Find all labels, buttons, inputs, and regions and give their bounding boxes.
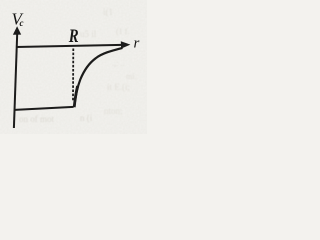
- dashed line at R: [72, 49, 74, 101]
- bleed-through text top right: [80, 7, 129, 68]
- svg-text:on of mot: on of mot: [19, 114, 54, 124]
- svg-text:c: c: [20, 18, 24, 28]
- svg-text:(1 f.: (1 f.: [116, 27, 129, 36]
- y-axis arrowhead: [13, 26, 21, 35]
- bleed-through text bottom: [19, 113, 93, 124]
- curve: [74, 48, 122, 107]
- svg-text:r: r: [134, 36, 140, 52]
- x-axis: [16, 45, 122, 47]
- bleed-through text right middle: [107, 72, 136, 92]
- paper background: [0, 0, 147, 134]
- flat segment: [15, 107, 74, 110]
- svg-text:it E.(i;: it E.(i;: [107, 82, 130, 92]
- svg-text:nton;: nton;: [104, 106, 123, 116]
- y-axis: [14, 34, 17, 129]
- svg-text:.,: ..: .,: ..: [112, 59, 124, 68]
- curve lower thick part: [74, 86, 77, 107]
- bleed-through text bottom right: [104, 106, 123, 116]
- svg-text:n (i: n (i: [80, 113, 93, 123]
- svg-text:i(1: i(1: [103, 7, 113, 17]
- svg-text:mi.: mi.: [126, 72, 136, 81]
- svg-text:R: R: [68, 25, 79, 46]
- x-axis arrowhead: [121, 41, 131, 48]
- svg-text:u5 il: u5 il: [80, 29, 97, 39]
